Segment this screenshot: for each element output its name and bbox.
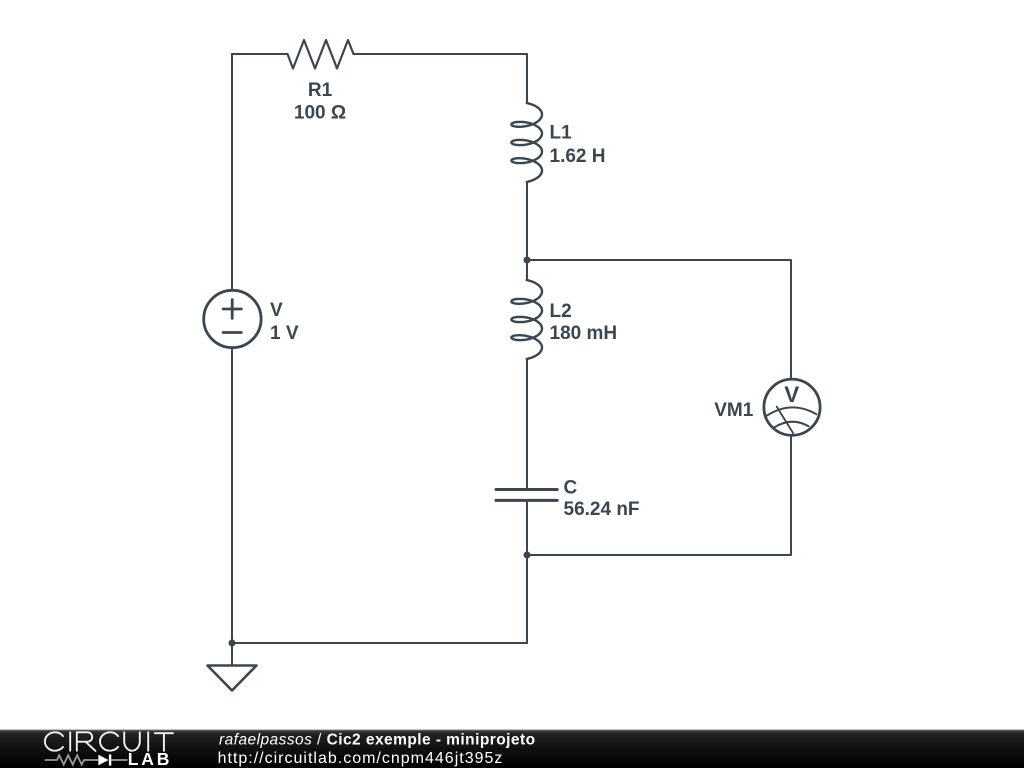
node A junction [524,257,531,264]
voltmeter VM1 circle [764,379,820,435]
svg-text:rafaelpassos / Cic2 exemple -: rafaelpassos / Cic2 exemple - miniprojet… [219,731,536,748]
svg-text:L1: L1 [550,122,573,143]
wire left vertical (top) [231,54,233,290]
footer bar [0,730,1024,768]
svg-text:L2: L2 [550,301,572,322]
svg-text:R1: R1 [308,80,333,101]
wire capacitor to node B [526,502,528,555]
svg-text:180 mH: 180 mH [550,323,618,344]
wire right vertical above L1 [526,54,528,103]
svg-text:LAB: LAB [128,749,172,768]
svg-text:V: V [270,300,283,321]
CircuitLab logo diode triangle [98,755,108,766]
svg-text:VM1: VM1 [714,400,754,421]
resistor R1 [288,40,354,69]
svg-text:56.24 nF: 56.24 nF [564,499,640,520]
svg-text:1.62 H: 1.62 H [550,146,606,167]
ground [208,666,257,691]
svg-text:1 V: 1 V [270,323,299,344]
CircuitLab logo resistor-diode wire [45,755,128,764]
svg-text:100 Ω: 100 Ω [294,103,346,124]
inductor L1 [511,103,542,182]
wire left vertical (bottom) [231,349,233,644]
wire voltmeter bottom to node B [527,437,791,555]
CircuitLab logo diode cathode bar [109,754,111,765]
node B junction [524,552,531,559]
wire between L1 and node A [526,182,528,260]
wire node A to voltmeter top [527,260,791,378]
capacitor C top plate [496,488,557,491]
wire node B to bottom wire [526,555,528,643]
capacitor C bottom plate [496,499,557,502]
CircuitLab logo CIRCUIT letters [45,732,173,751]
wire bottom horizontal [232,642,527,644]
voltage source V circle [204,290,261,347]
svg-text:V: V [784,382,799,407]
node bottom-left junction [229,640,236,647]
voltage source plus sign [223,300,241,319]
svg-text:http://circuitlab.com/cnpm446j: http://circuitlab.com/cnpm446jt395z [218,750,504,767]
svg-text:C: C [564,478,578,499]
wire node A to L2 [526,260,528,280]
wire between L2 and capacitor [526,359,528,488]
wire top-right segment [354,53,528,55]
wire top-left segment [232,53,288,55]
wire ground stub [231,643,233,666]
voltmeter VM1 scale arc outer [767,407,817,415]
voltmeter VM1 scale arc inner [774,422,809,428]
inductor L2 [511,280,542,359]
voltage source minus sign [223,331,241,334]
voltmeter VM1 needle [777,407,793,434]
